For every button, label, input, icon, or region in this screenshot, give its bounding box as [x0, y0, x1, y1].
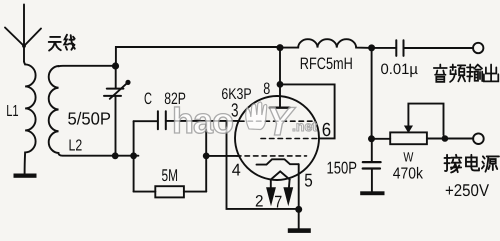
ground (150P): [360, 191, 384, 195]
terminal power input: [473, 133, 484, 144]
label 频 (audio out): [450, 65, 465, 82]
svg-text:C: C: [144, 90, 152, 108]
grid 3 (dashed): [237, 155, 307, 157]
svg-text:+250V: +250V: [445, 181, 490, 200]
variable capacitor C1 5/50P: [104, 66, 131, 156]
svg-text:150P: 150P: [327, 159, 358, 178]
heater lead pin 2: [270, 180, 272, 189]
svg-text:5: 5: [304, 170, 313, 191]
node H (RFC / decoupling): [368, 44, 375, 51]
label 接 (power): [445, 155, 462, 173]
label 天 (antenna): [49, 37, 61, 51]
wire screen grid (pin 6): [280, 84, 335, 138]
label 出 (audio out): [484, 65, 498, 82]
antenna left prong: [5, 28, 24, 47]
svg-text:6: 6: [322, 120, 331, 141]
antenna mast: [23, 5, 25, 62]
wire grid (pin 3): [166, 120, 239, 122]
wire L2 top to node: [59, 65, 116, 68]
inductor L1: [24, 62, 36, 174]
anode plate: [270, 106, 290, 108]
svg-text:7: 7: [274, 193, 282, 212]
wire cathode return: [227, 121, 299, 209]
heater lead pin 7: [288, 180, 291, 189]
grid 1 (dashed): [240, 120, 315, 122]
svg-text:470k: 470k: [393, 166, 424, 183]
watermark: [172, 100, 317, 144]
terminal audio output: [473, 43, 483, 53]
cathode: [257, 159, 299, 164]
capacitor C2 150P: [363, 139, 381, 192]
wire plate lead: [279, 48, 281, 108]
svg-text:.net: .net: [292, 118, 317, 134]
inductor L2: [49, 66, 139, 156]
svg-text:L1: L1: [6, 103, 18, 120]
wire B+ vertical: [371, 48, 373, 139]
svg-text:5M: 5M: [162, 166, 179, 185]
heater filament: [271, 171, 290, 179]
antenna fork junction: [22, 44, 26, 48]
svg-text:5/50P: 5/50P: [68, 108, 112, 128]
label 输 (audio out): [467, 65, 482, 82]
node I (150P / pot): [368, 135, 375, 142]
node J (wiper / output): [442, 135, 449, 142]
capacitor C3 0.01u: [372, 40, 474, 56]
potentiometer W 470k: [372, 132, 474, 144]
node F (grid leak / pin4 wire): [203, 153, 210, 160]
svg-text:RFC5mH: RFC5mH: [300, 55, 353, 73]
node D (top rail / plate lead): [277, 44, 284, 51]
wire suppressor grid (pin 4): [206, 155, 239, 157]
resistor R1 5M: [134, 186, 207, 197]
ground (cathode): [298, 209, 300, 228]
label 音 (audio out): [434, 65, 447, 82]
wire grid-leak left vertical: [133, 121, 135, 191]
svg-text:2: 2: [255, 193, 264, 211]
antenna right prong: [24, 29, 41, 47]
label 电 (power): [466, 155, 479, 171]
label 线 (antenna): [64, 35, 75, 50]
node B (tank bottom / C1): [112, 152, 119, 159]
grid 2 (dashed): [261, 138, 317, 140]
capacitor C 82P: [134, 111, 166, 129]
node C (tank bottom / grid-leak left): [130, 152, 137, 159]
node A (L2 top / C1 / top rail): [112, 62, 119, 69]
node G (cathode / ground): [295, 206, 302, 213]
wire cathode (pin 5): [298, 164, 300, 209]
svg-text:0.01µ: 0.01µ: [381, 61, 419, 78]
svg-text:8: 8: [263, 80, 270, 98]
node E (plate / screen wire): [277, 81, 284, 88]
potentiometer wiper: [405, 104, 444, 135]
label 源 (power): [482, 156, 499, 171]
svg-text:hao: hao: [172, 100, 233, 141]
inductor RFC 5mH: [280, 39, 372, 48]
svg-text:4: 4: [232, 161, 241, 180]
vacuum tube V1 6K3P envelope: [235, 96, 319, 180]
wire grid-leak right vertical: [205, 121, 207, 192]
ground (L1): [14, 174, 37, 178]
wire top rail to plate: [116, 47, 280, 66]
svg-text:L2: L2: [69, 138, 83, 155]
svg-text:W: W: [403, 149, 413, 164]
